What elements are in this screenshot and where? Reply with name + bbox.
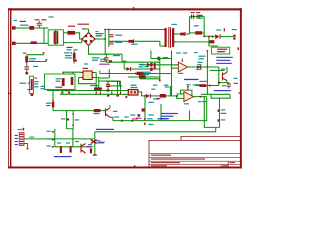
label mag [156, 98, 161, 99]
label r13 [94, 113, 100, 114]
blue label on bus [157, 118, 167, 119]
transformer TR1 primary winding [165, 28, 167, 47]
wire secondary top to D1 [174, 33, 180, 35]
IC1 optocoupler body [83, 71, 92, 80]
resistor R11 [200, 84, 207, 87]
label T2 [113, 111, 118, 112]
pads below bus2 [107, 95, 109, 97]
title block rule 3 [149, 160, 240, 163]
label r12 [46, 103, 52, 104]
label D5 [216, 29, 221, 30]
tick 24 [52, 131, 54, 132]
wire bridge bottom down [89, 45, 109, 54]
wire link across [43, 28, 45, 43]
label net right [147, 118, 153, 119]
wire into transformer lower [160, 41, 164, 46]
bus y120.6 [113, 120, 161, 122]
wire opamp plus input [140, 64, 178, 66]
vertical 124 [123, 62, 125, 69]
wire D5 to X2 [221, 36, 234, 38]
gnd bus elbow [46, 90, 48, 91]
diode D5 [215, 34, 219, 39]
label 24 [47, 131, 51, 132]
wire rail A bottom [105, 53, 122, 55]
bracket top wires [211, 94, 230, 98]
labels left of bus131 [130, 114, 135, 115]
resistor R7 [160, 94, 166, 97]
pin stub X2 [224, 28, 225, 31]
wire 77 horiz [128, 76, 160, 78]
label R2 value [68, 26, 75, 27]
IC1 pins right [92, 72, 94, 73]
wire 78.8 horiz [140, 78, 160, 80]
junction dot on loop [67, 118, 69, 120]
labels loop [61, 118, 66, 119]
relay coil element [62, 78, 65, 86]
wire 73.5 horiz [100, 73, 172, 75]
title block rule 2 [149, 156, 240, 159]
tick net 145 down [144, 123, 145, 126]
gnd bus horizontal [47, 90, 129, 92]
title block divider sheet cell [227, 161, 230, 167]
label SV1 [18, 129, 23, 130]
wire down from junction [208, 37, 210, 46]
blue connector labels right [216, 57, 233, 58]
wire corner down [122, 54, 127, 61]
wire ic2b inputs [177, 93, 184, 95]
label 29 [165, 86, 170, 87]
component loop rectangle [67, 111, 74, 129]
transformer pin stubs [163, 29, 165, 31]
wire relay pins to IC1 [63, 71, 81, 73]
teal labels above T1 [197, 62, 202, 63]
relay contact element [71, 77, 74, 85]
wire t2 collector [109, 105, 111, 108]
label c12 [113, 55, 120, 56]
label near right frame teal [234, 78, 238, 79]
label above relay diode [64, 52, 70, 53]
label bowtie mag [98, 142, 105, 143]
label B1 value [78, 24, 90, 25]
wire opamp output [188, 66, 219, 68]
pad varistor bottom [31, 94, 34, 96]
label 12 [221, 109, 226, 110]
pin tick 11 [218, 119, 220, 121]
wire 58 horiz [151, 58, 172, 60]
junction stage2 [176, 95, 178, 97]
label uA [153, 98, 160, 99]
resistor R13 [94, 109, 101, 112]
wire X1-1 to fuse [16, 27, 30, 29]
label D4 [139, 64, 145, 65]
capacitor C6 on loop [197, 15, 198, 19]
wire 110.6 horizontal [53, 110, 94, 112]
frame right line [240, 8, 242, 168]
diode D1 [180, 33, 184, 36]
label F1 [20, 25, 29, 26]
junction dot [203, 35, 205, 37]
junction rail A [104, 38, 106, 40]
wire bracket to bus [215, 127, 217, 131]
small label right of dot [194, 52, 198, 53]
transistor T3 [81, 144, 86, 154]
box inner vertical [189, 111, 191, 121]
wire loop top [190, 16, 205, 18]
resistor R9 [139, 75, 146, 78]
labels near 94.8 top [95, 140, 100, 141]
wire 69 horiz [124, 68, 160, 70]
bridge corner dots [88, 32, 90, 34]
connector X2 pads [233, 35, 235, 37]
label 10 [47, 138, 51, 139]
sv1 bottom stub [24, 144, 28, 148]
relay value text [55, 87, 62, 88]
junction [144, 95, 146, 97]
title block text row4 rev [222, 165, 228, 166]
rail B vertical [108, 30, 110, 48]
choke L1 winding box 2 [56, 30, 63, 45]
teal dash right of bridge top [95, 31, 98, 32]
label 12 value [221, 113, 227, 114]
wire stage2 resistor [160, 94, 166, 97]
varistor loop wires [30, 76, 34, 93]
labels C5 C6 [191, 12, 195, 13]
wire lower secondary feed [112, 40, 160, 42]
wire cluster bottom [55, 146, 93, 148]
diode D3 stage2 [146, 94, 150, 98]
title block rule 4 [149, 163, 240, 166]
resistor R3 [195, 31, 202, 34]
capacitor C3 plates [109, 42, 114, 43]
cluster labels teal [57, 142, 61, 143]
tick rail top [207, 50, 209, 51]
title block text row3 [151, 162, 180, 163]
wire X1-2 lower [16, 42, 49, 44]
label 29 right [202, 101, 207, 102]
wire top bus [105, 29, 164, 31]
wire sv1 to bowtie [24, 138, 94, 140]
tick above relay diode [71, 52, 72, 54]
tick net 145 [144, 118, 145, 120]
wire t2 emitter to bus [110, 117, 113, 120]
tick 10 [52, 139, 54, 140]
module U2 label text [217, 49, 227, 50]
labels left of bus start [41, 86, 46, 87]
lamp H1 body [128, 90, 138, 95]
bridge rectifier B1 diamond [82, 33, 95, 46]
cluster component 2 [70, 148, 72, 153]
junction r8 [143, 73, 145, 75]
label L1 [49, 16, 54, 17]
vertical 119.7 [119, 81, 121, 86]
choke L1 core bar 2 [57, 31, 59, 44]
choke pin dots [55, 31, 56, 32]
pads below relay stubs [61, 91, 63, 93]
label 0V [33, 66, 38, 67]
wire r11 [196, 85, 200, 87]
fuse F1 [29, 26, 34, 30]
second gnd bus [60, 93, 129, 95]
connector X1 pad 1 [12, 26, 16, 29]
vertical bus 54.8 [54, 129, 56, 147]
vertical rail 98.7 [98, 78, 100, 91]
big green box around ic2b [161, 97, 207, 121]
resistor R1 vertical [26, 55, 28, 66]
label R6 [90, 85, 99, 86]
wire D1 to loop [185, 33, 189, 35]
loop pin ticks [72, 113, 73, 114]
label X2 [232, 29, 237, 30]
wire t1 collector [226, 67, 228, 72]
label TR1 [172, 24, 178, 25]
tick near frame [238, 47, 239, 50]
resistor R12 [52, 102, 54, 108]
label 11 [221, 119, 226, 120]
connector SV1 body [19, 133, 24, 146]
bridge B1 diode marks [85, 35, 87, 37]
capacitor C12 on vertical [105, 54, 107, 57]
label D2 [131, 44, 138, 45]
pin tick lsp [28, 83, 30, 84]
transistor T2 [106, 108, 111, 118]
label above tick [27, 89, 31, 90]
junction t1 [218, 82, 220, 84]
capacitor C2 plates [109, 34, 114, 35]
label IC1 [84, 63, 88, 64]
opamp IC2B power tick [187, 87, 188, 91]
fold tick top [133, 7, 135, 8]
junction output [199, 66, 201, 68]
label small rs [145, 66, 150, 67]
capacitor below R1 [24, 66, 29, 67]
op-amp IC2B [184, 92, 194, 102]
junction big dot [157, 57, 161, 61]
vertical rail 96.2 [95, 73, 97, 91]
capacitor C13 [107, 81, 109, 83]
wire loop right vertical [203, 17, 205, 37]
wire horiz lower [27, 60, 47, 61]
tick sv1 [23, 128, 25, 131]
mag label [136, 118, 142, 119]
wire ic1 pin2 loop [79, 78, 97, 84]
frame inner left line [10, 8, 12, 168]
label C1 values [35, 19, 40, 20]
capacitor C10 [142, 108, 145, 111]
label 9 [47, 145, 51, 146]
wire C1 leads [38, 21, 40, 23]
wire t1 emitter [226, 81, 228, 83]
label C4 [92, 57, 100, 58]
SV1 blue pin labels [15, 135, 18, 136]
transformer TR1 secondary winding [172, 28, 174, 47]
label D1 [194, 25, 199, 26]
pin tick 12 [218, 110, 220, 112]
vertical 218.8 [218, 67, 220, 86]
blue label bc557 [54, 156, 72, 157]
wire secondary bottom [174, 41, 209, 43]
vertical 159.8 [159, 59, 161, 79]
fold tick left [8, 93, 11, 94]
wire 85.9 horiz [106, 85, 122, 87]
bus 121.9 pads [121, 120, 122, 122]
pin stub top [42, 52, 44, 53]
label T3 mag [86, 146, 92, 147]
wire t1 horiz [210, 69, 225, 71]
teal labels mid [186, 84, 191, 85]
wire stub down [43, 53, 45, 54]
labels right mid teal [199, 56, 206, 57]
wire R3 [190, 32, 196, 34]
red marks near rail [109, 60, 112, 63]
label 12V [163, 57, 168, 58]
vertical 170.4 [169, 86, 171, 96]
label B1 right [96, 33, 104, 34]
label T1 [221, 69, 226, 70]
label magenta row [99, 64, 110, 65]
junction dot bus [65, 90, 67, 92]
title block divider rev cell [220, 164, 223, 166]
label R1 [29, 58, 36, 59]
transformer TR1 core [168, 27, 169, 47]
junction dots cluster [60, 146, 62, 148]
lamp pin pad below [125, 96, 127, 98]
verticals small left [150, 63, 152, 66]
tick above r12 [52, 100, 53, 101]
resistor R6 [94, 87, 102, 90]
wire to module box [209, 46, 217, 47]
wire choke lower to bridge [63, 42, 82, 44]
rail 207.4 [206, 51, 208, 95]
rail A vertical [104, 30, 106, 55]
resistor R2 [67, 31, 75, 35]
label above caps [96, 33, 103, 34]
wire ic1 right pin1 [94, 72, 96, 74]
label D7 [142, 72, 151, 73]
pin ticks between buses [96, 91, 97, 94]
cluster component 1 [60, 148, 62, 153]
labels above opamp [176, 52, 181, 53]
comb horizontal y81 [99, 80, 121, 82]
op-amp IC2A [178, 62, 187, 72]
title block text row2 [151, 159, 205, 160]
stub up from 73.5 [99, 71, 101, 74]
label r11 [200, 81, 208, 82]
tick 9 [52, 146, 54, 147]
wire r13 to T2 [100, 110, 105, 112]
pad net [138, 114, 141, 116]
labels on bus 120 [114, 116, 119, 117]
wire R2 to bridge [75, 33, 82, 39]
labels left of relay diode [65, 55, 72, 56]
labels varistor [34, 81, 39, 82]
rail 171.5 [171, 51, 173, 96]
frame outer left line [7, 8, 10, 168]
choke L1 winding box 1 [48, 30, 55, 45]
wire relay top pins [62, 72, 64, 74]
labels above lamp [131, 85, 137, 86]
frame top line [8, 8, 242, 10]
comb vertical 120.5 [120, 81, 122, 91]
diode D4 [127, 67, 131, 71]
capacitor C1 X-cap plates [37, 22, 43, 25]
wire ic2b output [194, 96, 207, 98]
label coil [56, 78, 62, 79]
relay bottom stubs to bus [61, 90, 63, 91]
wire lamp right [138, 92, 145, 96]
diode D8 vertical [73, 51, 75, 53]
blue label mid [184, 79, 199, 80]
wire rail junction [109, 40, 112, 42]
IC1 pins left [81, 72, 83, 73]
cluster component 4 [90, 148, 92, 153]
transistor T1 [223, 72, 228, 80]
label LSP [20, 83, 27, 84]
wire loop to cluster [72, 129, 74, 147]
pin stub 2 [45, 59, 47, 60]
pin stub varistor top [35, 78, 38, 79]
label 230V [20, 21, 27, 22]
junction out2 [200, 96, 202, 98]
labels above comb teal [100, 59, 106, 60]
label on wire [29, 137, 34, 138]
label D2 teal [198, 18, 203, 19]
title block rule 1 [149, 152, 240, 155]
diode D2 [128, 40, 133, 43]
bowtie junction X [91, 140, 97, 144]
label D2 red [198, 15, 203, 16]
label bowtie teal [88, 144, 92, 145]
wire choke to R2 [63, 32, 67, 34]
small cap vertical 154 [154, 63, 156, 70]
label near right frame magenta [234, 83, 239, 84]
vertical rail 53 [52, 91, 54, 111]
capacitor C5 on loop [191, 15, 192, 19]
bus y131.3 [95, 131, 216, 133]
resistor R8 [137, 72, 143, 75]
title block outline [149, 136, 240, 166]
feedback loop [181, 90, 192, 97]
diode D7 [147, 63, 151, 67]
label IC2B [184, 103, 189, 104]
power led bracket [204, 97, 219, 128]
wire 151 vertical up [150, 51, 152, 59]
wire ic1 right pin2 [94, 77, 99, 79]
wire 81.4 horiz [106, 80, 120, 82]
pad ground [26, 72, 29, 74]
wire vertical net column [144, 96, 146, 121]
pad c13 [107, 89, 110, 91]
connector X1 pad 2 [12, 42, 16, 45]
resistor R4 on wire [209, 40, 215, 43]
wire cap down to pad [26, 70, 28, 72]
wire fuse to choke [34, 27, 48, 29]
varistor R on lower wire [31, 41, 37, 44]
blue label above bus left [96, 129, 114, 130]
end tick 94.8 [93, 154, 97, 155]
title block text row4 [151, 165, 167, 166]
relay pin dots [62, 72, 64, 74]
vertical 94.8 [94, 132, 96, 155]
net labels stack [148, 102, 154, 103]
blue label power led [214, 90, 231, 91]
title block text row1 [151, 155, 171, 156]
SV1 pins [20, 134, 24, 135]
label gnd teal [153, 85, 158, 86]
module box U2 [212, 47, 230, 54]
stub to comb [108, 69, 110, 78]
fold tick right [239, 93, 241, 94]
labels below choke [67, 47, 73, 48]
